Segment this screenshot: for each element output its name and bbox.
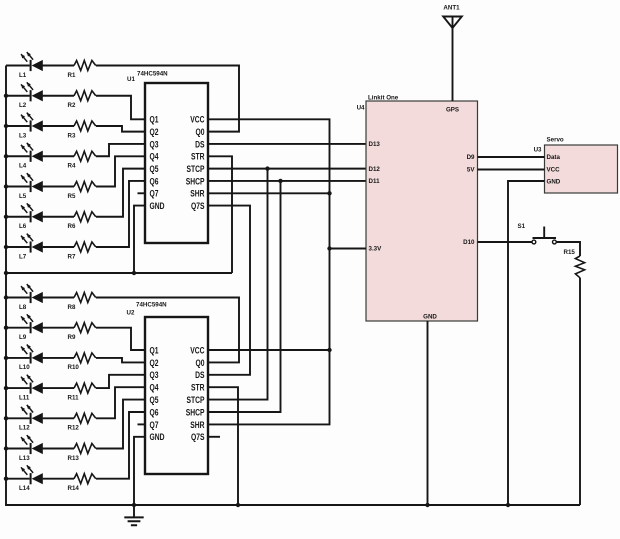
Linkit One board U4 body (366, 101, 478, 321)
svg-text:Q1: Q1 (150, 346, 160, 356)
svg-text:R7: R7 (68, 253, 76, 260)
wire L13/R13 to U2 Q5 (96, 400, 145, 449)
wire Linkit D10 to switch S1 (478, 241, 532, 243)
svg-text:Q7S: Q7S (191, 432, 205, 442)
svg-text:R11: R11 (68, 394, 80, 401)
svg-text:STR: STR (191, 383, 205, 393)
wire U2 GND down to ground rail (134, 437, 145, 505)
LED L10 (6, 345, 74, 372)
LED L12 (6, 405, 74, 432)
svg-text:D12: D12 (369, 166, 381, 173)
svg-text:GND: GND (150, 432, 165, 442)
svg-text:SHR: SHR (190, 420, 205, 430)
svg-text:L10: L10 (19, 364, 30, 371)
svg-text:D11: D11 (369, 178, 381, 185)
node ground rail / ground symbol (132, 503, 136, 507)
svg-text:L1: L1 (19, 72, 27, 79)
svg-text:Q5: Q5 (150, 395, 160, 405)
svg-text:STR: STR (191, 152, 205, 162)
wire U2 VCC to VCC net (208, 349, 330, 351)
wire U1 STR to ground tie line (208, 156, 232, 273)
svg-text:Q2: Q2 (150, 127, 160, 137)
wire L2/R2 to U1 Q1 (96, 96, 145, 120)
node U2 STR on ground rail (236, 503, 240, 507)
svg-text:L11: L11 (19, 394, 30, 401)
svg-text:GND: GND (547, 178, 561, 185)
svg-text:Q1: Q1 (150, 115, 160, 125)
resistor R1 (68, 61, 96, 79)
svg-text:R4: R4 (68, 163, 76, 170)
svg-text:Q7S: Q7S (191, 201, 205, 211)
wire L12/R12 to U2 Q4 (96, 387, 145, 418)
svg-text:R1: R1 (68, 72, 76, 79)
LED L1 (6, 52, 74, 79)
wire L5/R5 to U1 Q4 (96, 156, 145, 186)
svg-text:R13: R13 (68, 455, 80, 462)
wire Linkit 5V to Servo VCC (478, 169, 545, 171)
wire U1 SHCP to Linkit One D11 and down to U2 SHCP (208, 181, 366, 412)
svg-text:L6: L6 (19, 223, 27, 230)
svg-text:L13: L13 (19, 455, 30, 462)
svg-text:R6: R6 (68, 223, 76, 230)
svg-text:Q4: Q4 (150, 383, 160, 393)
svg-text:L2: L2 (19, 102, 27, 109)
resistor R9 (68, 323, 96, 341)
node Servo GND on ground rail (506, 503, 510, 507)
junction dots on cathode bus (4, 94, 8, 481)
svg-text:L8: L8 (19, 304, 27, 311)
Servo U3 body (545, 145, 618, 193)
svg-text:SHCP: SHCP (186, 176, 205, 186)
wire L10/R10 to U2 Q2 (96, 358, 145, 363)
svg-text:D10: D10 (463, 239, 475, 246)
wire L6/R6 to U1 Q5 (96, 169, 145, 217)
svg-text:U3: U3 (534, 146, 542, 153)
node U1 SHR on VCC net (327, 191, 331, 195)
antenna ANT1 (443, 5, 462, 102)
resistor R4 (68, 151, 96, 169)
resistor R8 (68, 293, 96, 311)
node Linkit GND on ground rail (425, 503, 429, 507)
svg-text:Q7: Q7 (150, 189, 160, 199)
wire U1 Q7S to U2 DS (daisy chain) (208, 206, 250, 375)
wire R15 down to ground rail (579, 278, 581, 505)
resistor R13 (68, 444, 96, 462)
LED L7 (6, 234, 74, 261)
wire U1 Q7 stub (unconnected) (138, 192, 146, 194)
svg-text:SHCP: SHCP (186, 408, 205, 418)
svg-text:5V: 5V (467, 167, 475, 174)
resistor R2 (68, 91, 96, 109)
svg-text:D9: D9 (467, 154, 475, 161)
wire U2 STR down to ground rail (208, 387, 238, 505)
svg-text:GPS: GPS (446, 107, 459, 114)
svg-text:Q3: Q3 (150, 139, 160, 149)
svg-text:L12: L12 (19, 425, 30, 432)
wire U1 SHR to VCC net (208, 192, 330, 194)
svg-text:R15: R15 (564, 249, 576, 256)
svg-text:DS: DS (195, 370, 204, 380)
LED L5 (6, 173, 74, 200)
svg-text:74HC594N: 74HC594N (137, 71, 168, 78)
LED L2 (6, 82, 74, 109)
svg-text:Q2: Q2 (150, 358, 160, 368)
LED cathode bus (left vertical) and ground rail (bottom) (6, 66, 580, 506)
wire Linkit One GND down to ground rail (427, 321, 429, 505)
svg-text:SHR: SHR (190, 189, 205, 199)
wire ground tie line (bus to U1 GND/STR) (6, 272, 232, 274)
wire L8/R8 to U2 Q0 (around top) (96, 298, 239, 363)
wire U2 Q7S stub (unconnected) (208, 436, 220, 438)
wire U2 Q7 stub (unconnected) (138, 423, 146, 425)
LED L13 (6, 435, 74, 462)
wire L1/R1 to U1 Q0 (around top) (96, 66, 239, 132)
svg-text:Q7: Q7 (150, 420, 160, 430)
svg-text:R2: R2 (68, 102, 76, 109)
resistor R15 (564, 249, 585, 278)
shift register U2 74HC594N body (145, 317, 208, 474)
svg-text:Q0: Q0 (195, 358, 205, 368)
LED L6 (6, 203, 74, 230)
wire U1 STCP to Linkit One D12 and down to U2 STCP (208, 169, 366, 400)
svg-text:U4: U4 (357, 105, 365, 112)
node U1 STCP branch (265, 166, 269, 170)
wire L9/R9 to U2 Q1 (96, 328, 145, 350)
wire U1 DS to Linkit One D13 (208, 143, 366, 145)
resistor R3 (68, 121, 96, 139)
wire S1 to R15 (556, 242, 580, 256)
wire U1 GND to ground tie line (134, 206, 145, 273)
svg-text:Data: Data (547, 154, 561, 161)
svg-text:74HC594N: 74HC594N (136, 302, 167, 309)
svg-text:L4: L4 (19, 163, 27, 170)
svg-text:Q3: Q3 (150, 370, 160, 380)
svg-text:Q5: Q5 (150, 164, 160, 174)
wire L11/R11 to U2 Q3 (96, 375, 145, 388)
svg-text:Linkit One: Linkit One (368, 94, 399, 101)
wire L3/R3 to U1 Q2 (96, 126, 145, 132)
svg-text:Q0: Q0 (195, 127, 205, 137)
wire L14/R14 to U2 Q6 (96, 412, 145, 479)
svg-text:D13: D13 (369, 141, 381, 148)
svg-text:VCC: VCC (190, 115, 205, 125)
wire L7/R7 to U1 Q6 (96, 181, 145, 247)
resistor R12 (68, 413, 96, 431)
svg-text:L9: L9 (19, 334, 27, 341)
svg-text:Servo: Servo (547, 136, 564, 143)
svg-text:L5: L5 (19, 193, 27, 200)
LED L4 (6, 143, 74, 170)
node bus / tie junction (0, 0, 1, 1)
resistor R6 (68, 212, 96, 230)
resistor R7 (68, 242, 96, 260)
resistor R14 (68, 474, 96, 492)
svg-text:S1: S1 (518, 223, 526, 230)
LED L8 (6, 284, 74, 311)
wire U1 VCC to 3.3V net, down to U2 SHR (208, 119, 330, 424)
svg-text:U2: U2 (127, 310, 135, 317)
svg-text:L7: L7 (19, 253, 27, 260)
svg-text:R9: R9 (68, 334, 76, 341)
svg-text:Q4: Q4 (150, 152, 160, 162)
svg-text:R5: R5 (68, 193, 76, 200)
ground symbol (124, 505, 143, 525)
svg-text:U1: U1 (127, 76, 135, 83)
LED L3 (6, 113, 74, 140)
svg-text:VCC: VCC (547, 167, 561, 174)
node U2 VCC on VCC net (327, 348, 331, 352)
pushbutton S1 (518, 223, 557, 244)
svg-text:STCP: STCP (186, 395, 204, 405)
svg-text:STCP: STCP (186, 164, 204, 174)
svg-text:GND: GND (150, 201, 165, 211)
resistor R11 (68, 383, 96, 401)
wire Servo GND down to ground rail (508, 181, 545, 505)
svg-text:R14: R14 (68, 485, 80, 492)
svg-text:GND: GND (423, 314, 437, 321)
node U1 SHCP branch (278, 179, 282, 183)
node U1 GND / tie junction (132, 271, 136, 275)
wire L4/R4 to U1 Q3 (96, 144, 145, 156)
svg-text:L14: L14 (19, 485, 30, 492)
shift register U1 74HC594N body (145, 83, 208, 243)
svg-text:3.3V: 3.3V (369, 246, 383, 253)
LED L14 (6, 465, 74, 492)
wire 3.3V to VCC net (330, 248, 367, 250)
svg-text:R3: R3 (68, 132, 76, 139)
wire Linkit D9 to Servo Data (478, 156, 545, 158)
svg-text:L3: L3 (19, 132, 27, 139)
LED L11 (6, 375, 74, 402)
svg-text:Q6: Q6 (150, 176, 160, 186)
svg-text:R10: R10 (68, 364, 80, 371)
svg-text:R8: R8 (68, 304, 76, 311)
svg-text:DS: DS (195, 139, 204, 149)
node 3.3V on VCC net (327, 246, 331, 250)
resistor R10 (68, 353, 96, 371)
svg-text:ANT1: ANT1 (443, 5, 460, 12)
svg-text:Q6: Q6 (150, 408, 160, 418)
resistor R5 (68, 182, 96, 200)
svg-text:R12: R12 (68, 425, 80, 432)
svg-text:VCC: VCC (190, 346, 205, 356)
LED L9 (6, 314, 74, 341)
